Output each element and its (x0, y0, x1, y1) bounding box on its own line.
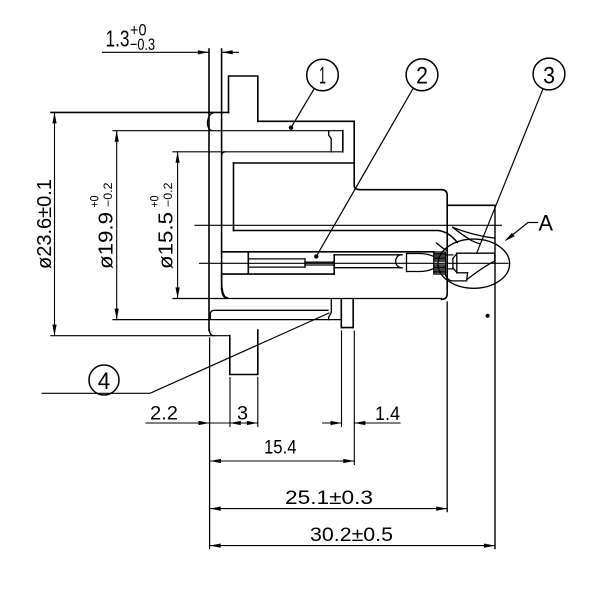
lower mount bump (230, 330, 258, 375)
dim Ø23.6 line (54, 112, 56, 335)
contact sweep curve (467, 261, 495, 280)
spring loop chord (406, 254, 408, 272)
spring loop arc (396, 255, 402, 268)
tip right edge (494, 253, 496, 262)
leader 1 (291, 89, 314, 128)
shield box right edge (446, 195, 448, 293)
tip cone chamfer top (453, 254, 457, 259)
upper slot right wall (342, 131, 344, 152)
svg-text:+0: +0 (148, 195, 162, 207)
pin inner shaft top (248, 258, 305, 260)
pin channel top (222, 251, 434, 253)
svg-text:+0: +0 (88, 195, 102, 207)
pin channel bottom (222, 273, 335, 275)
ext line 1.4 left (341, 331, 343, 427)
pin sleeve left end (247, 252, 249, 274)
spring arm top (407, 254, 434, 257)
dim 30.2 line (210, 545, 495, 547)
svg-text:4: 4 (98, 368, 111, 395)
dim 2.2 and 3 line (146, 422, 258, 424)
lower outline step (341, 299, 353, 328)
leader 1 dot (289, 126, 293, 130)
detail ellipse A (438, 239, 510, 288)
funnel curve upper (453, 227, 494, 238)
svg-text:−0.3: −0.3 (130, 35, 155, 54)
channel bottom corner to body line (222, 274, 228, 298)
leader 2 dot (314, 254, 318, 258)
contact lip (445, 275, 467, 281)
barrel right edge (494, 205, 496, 548)
pin rear bottom line (334, 267, 402, 269)
knurl block outline (434, 252, 446, 274)
tip top edge (457, 252, 495, 254)
arrowheads (198, 50, 209, 54)
ext line 15.4 right (353, 331, 355, 465)
svg-text:−0.2: −0.2 (103, 183, 115, 208)
svg-text:1: 1 (319, 63, 326, 90)
tip left edge (456, 253, 458, 273)
cavity bottom edge with throat curve (234, 231, 458, 243)
leader 3 (477, 89, 543, 254)
pin rear top line (334, 254, 402, 256)
flange bottom-left fillet (209, 330, 214, 336)
bore bottom fillet at flange (222, 289, 228, 299)
svg-text:ø15.5: ø15.5 (156, 212, 178, 269)
throat small curve (437, 243, 448, 251)
svg-text:15.4: 15.4 (264, 437, 297, 459)
stray dot (486, 314, 490, 318)
lower slot right wall (340, 299, 342, 320)
bore top / Ø15.5 top extension (173, 151, 343, 153)
part axis centerline (195, 224, 502, 226)
tip step down (466, 273, 469, 280)
shield box top edge (360, 189, 442, 191)
cone-to-knurl link top (446, 254, 453, 256)
svg-text:2.2: 2.2 (150, 403, 178, 425)
top key bump (229, 76, 258, 121)
body top edge (258, 120, 354, 122)
tip cone chamfer bottom (453, 268, 457, 273)
tip bottom edge (457, 272, 468, 274)
dim 15.4 line (210, 460, 354, 462)
upper slot top / Ø19.9 top extension (113, 130, 343, 132)
dim 25.1 line (210, 508, 448, 510)
svg-text:30.2±0.5: 30.2±0.5 (310, 524, 393, 546)
ext lines bump 3 (229, 378, 231, 427)
pin inner shaft end cap (304, 259, 306, 267)
callout circle 1 (307, 59, 339, 91)
body bottom / Ø15.5 bottom extension (173, 298, 442, 300)
flange left edge (208, 49, 210, 331)
callout circle 4 (89, 365, 119, 395)
ext line 25.1 right (446, 302, 448, 512)
spring arm bottom (407, 268, 434, 271)
cavity top edge (234, 162, 355, 164)
callout circle 3 (533, 58, 565, 90)
tip cone face (452, 259, 454, 268)
leader 2 (316, 88, 413, 257)
cone-to-knurl link bottom (446, 268, 453, 270)
cavity left wall (233, 163, 235, 231)
svg-text:1.4: 1.4 (375, 403, 400, 425)
svg-text:A: A (539, 211, 554, 236)
flange front bulge arc (207, 113, 214, 131)
leader 4 (42, 313, 329, 393)
flange right edge (221, 49, 223, 289)
barrel top edge (447, 204, 495, 206)
svg-text:−0.2: −0.2 (163, 183, 175, 208)
pin step vertical (333, 255, 335, 274)
body right step vertical (354, 121, 360, 189)
svg-text:25.1±0.3: 25.1±0.3 (285, 487, 373, 509)
lower slot bottom / Ø19.9 bottom extension (113, 319, 341, 321)
callout circle 2 (406, 59, 438, 91)
dim 1.3 line (103, 51, 209, 53)
lower slot jog divider (329, 299, 332, 320)
pin mid section bottom (305, 264, 334, 266)
pin centerline (200, 262, 509, 264)
fillet at bore top left (222, 152, 225, 156)
svg-text:2: 2 (416, 63, 428, 90)
ext line below flange (209, 338, 211, 549)
svg-text:3: 3 (237, 403, 248, 425)
svg-text:ø23.6±0.1: ø23.6±0.1 (34, 179, 56, 269)
svg-text:3: 3 (543, 63, 555, 90)
svg-text:1.3: 1.3 (106, 26, 130, 52)
pin mid section top (305, 261, 334, 263)
dim 1.4 lines (323, 422, 342, 424)
svg-text:ø19.9: ø19.9 (96, 212, 118, 269)
shield box top-right corner (442, 190, 448, 196)
flange top edge (51, 111, 229, 113)
shield box bottom-right corner (442, 294, 448, 300)
upper slot jog divider (329, 131, 332, 152)
funnel curve lower (453, 227, 480, 243)
flange bottom / Ø23.6 bottom extension (51, 335, 230, 337)
lower terminal line (210, 310, 328, 319)
dim Ø19.9 line (116, 131, 118, 320)
dim Ø15.5 line (177, 152, 179, 299)
knurl hatch lines (434, 253, 446, 272)
pin inner shaft bottom (248, 266, 305, 268)
leader A (507, 223, 538, 240)
